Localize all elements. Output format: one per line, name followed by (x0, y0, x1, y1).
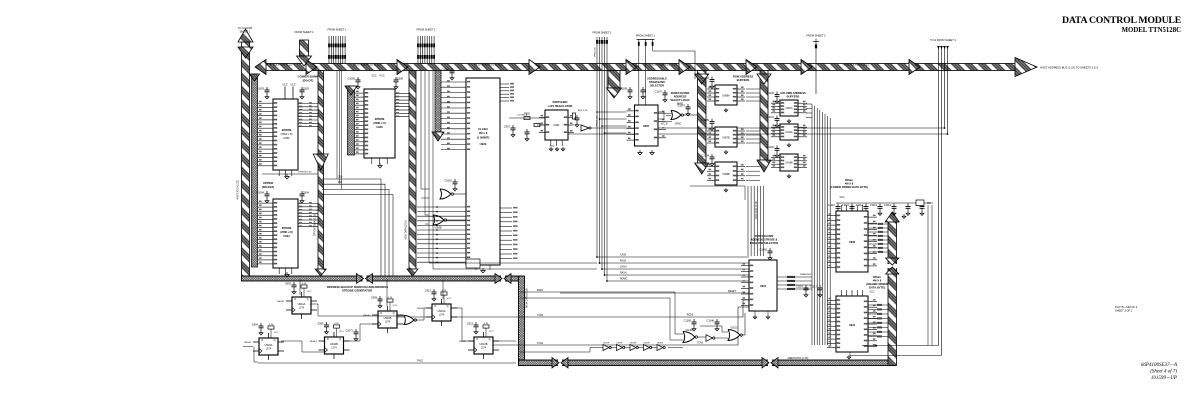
xor-gate U914C (404, 316, 414, 325)
capacitor C1103 (711, 77, 713, 80)
svg-text:C1065: C1065 (347, 77, 355, 81)
ground regulator (550, 147, 552, 149)
svg-text:HOST ADDRESS BUS (1:22) TO SHE: HOST ADDRESS BUS (1:22) TO SHEETS 3 & 6 (1040, 65, 1098, 69)
svg-text:C904: C904 (252, 323, 259, 327)
svg-text:C1100: C1100 (767, 91, 775, 95)
wire ff U910A out (281, 341, 325, 352)
svg-text:MODEL TTN5128C: MODEL TTN5128C (1122, 27, 1181, 34)
bus arrowhead flash drop (432, 132, 444, 141)
dram U909A lower byte (836, 211, 868, 272)
svg-text:D: D (262, 339, 264, 342)
svg-text:C907: C907 (504, 125, 511, 129)
svg-text:HOST ADD (1:22): HOST ADD (1:22) (237, 180, 240, 200)
svg-text:(Sheet 4 of 7): (Sheet 4 of 7) (1150, 370, 1177, 375)
wire bottom link U910A (254, 361, 258, 363)
wire ff U911A out (310, 304, 404, 316)
svg-text:GND: GND (550, 146, 555, 148)
sheet1 right wires arrows (937, 46, 940, 49)
bus arrowhead down row addr bottom (695, 163, 709, 174)
svg-text:D: D (327, 338, 329, 341)
svg-text:RSDC: RSDC (537, 290, 544, 292)
svg-text:U914F: U914F (630, 343, 637, 345)
svg-text:C1102: C1102 (767, 145, 775, 149)
svg-text:DRAM R/W: DRAM R/W (800, 273, 812, 276)
row buffer U908B (715, 162, 737, 185)
svg-text:U907B: U907B (722, 137, 730, 140)
capacitor C1066 (451, 68, 453, 71)
wire reset U910A (243, 346, 253, 348)
svg-text:D: D (435, 305, 437, 308)
svg-text:ADDRESS STROBE &: ADDRESS STROBE & (751, 238, 778, 242)
wire gate U914C out (415, 308, 432, 320)
capacitor C1109 (642, 87, 644, 90)
capacitor C1071 (355, 329, 357, 332)
svg-text:TCD0: TCD0 (537, 315, 544, 317)
inverter chain bottom (603, 345, 609, 351)
svg-text:U911B: U911B (384, 316, 392, 320)
capacitor C903 (301, 87, 303, 90)
svg-text:RCD0: RCD0 (687, 314, 694, 317)
svg-text:C1112: C1112 (856, 203, 864, 207)
capacitors dram decoupling row (837, 204, 839, 207)
svg-text:RESET: RESET (244, 342, 252, 344)
svg-text:(256K x 8): (256K x 8) (280, 230, 292, 234)
svg-text:DATA CONTROL MODULE: DATA CONTROL MODULE (1062, 15, 1182, 26)
flash U909 right pins bottom (500, 207, 512, 209)
wire gate U912A input B (520, 298, 683, 340)
connector cluster A wires (328, 36, 330, 64)
or-gate U906B (433, 215, 444, 225)
wire gate U912C input (700, 326, 728, 332)
svg-text:U907A: U907A (785, 107, 793, 110)
wires cluster A continue down (336, 71, 338, 180)
ground flash U909 (482, 268, 484, 271)
svg-text:4.7K: 4.7K (442, 290, 447, 292)
xor-gate U912A (683, 332, 695, 343)
svg-text:PLOTS—SIM OF 2: PLOTS—SIM OF 2 (1115, 305, 1138, 309)
svg-text:Q: Q (274, 339, 276, 342)
flip-flop U913B (475, 322, 477, 325)
svg-text:C1062: C1062 (444, 179, 452, 183)
svg-text:+5V SEC A: +5V SEC A (517, 114, 528, 117)
wire ff bus taps (299, 280, 301, 296)
svg-text:VCC: VCC (447, 298, 452, 300)
and-gate U906A (671, 111, 681, 120)
or-gate U906C (440, 189, 451, 199)
capacitor C1067 (687, 104, 689, 107)
svg-text:VCC: VCC (869, 291, 874, 294)
svg-text:LS74: LS74 (385, 321, 391, 323)
wires U904 outputs right (777, 276, 812, 278)
wires U905 right out (666, 112, 672, 114)
bus arrowhead host address (746, 60, 757, 75)
svg-text:ADDRESSABLE: ADDRESSABLE (647, 77, 667, 81)
wire ff U913B out (493, 340, 516, 342)
capacitor C1102 (776, 146, 778, 149)
dram U910 higher byte (836, 296, 868, 352)
bus mem data vertical (519, 276, 525, 366)
column buffer U914B (780, 154, 798, 171)
svg-text:(256K x 8): (256K x 8) (373, 121, 385, 125)
connector cluster C wires (638, 40, 640, 48)
bus arrowhead host address (626, 60, 637, 75)
svg-text:C903: C903 (285, 282, 292, 286)
svg-text:DRAM R/W SELECTOR: DRAM R/W SELECTOR (750, 241, 778, 245)
bus host address top horizontal (262, 64, 1016, 71)
bus to/from sheet1 left vertical (242, 42, 250, 281)
svg-text:U910A: U910A (265, 343, 273, 347)
capacitor C904 (301, 191, 303, 194)
ground U908B (725, 188, 727, 190)
wires control horizontal to selector (597, 256, 749, 258)
svg-text:(D8-D15): (D8-D15) (262, 185, 274, 189)
svg-text:101599—UP: 101599—UP (1151, 376, 1177, 381)
wires right loop bottom (876, 345, 939, 347)
sheet1 right wires vertical (938, 46, 940, 346)
ground eprom U904 (286, 272, 288, 275)
svg-text:DATA BYTE): DATA BYTE) (869, 286, 885, 290)
svg-text:U913F: U913F (616, 343, 623, 345)
wires mem add vertical (747, 186, 749, 256)
flash U909 left pins bottom (417, 206, 466, 208)
svg-text:SELECTOR: SELECTOR (650, 84, 664, 88)
bus arrowhead host address (909, 60, 920, 75)
flip-flop U911B (379, 296, 381, 299)
capacitor C1104 (711, 154, 713, 157)
capacitor C1107 (664, 90, 666, 93)
svg-text:CS1: CS1 (338, 182, 343, 184)
flash bottom pins (475, 265, 477, 270)
flip-flop U910B (326, 322, 328, 325)
capacitor C1100 (776, 92, 778, 95)
capacitor C1063 (266, 87, 268, 90)
bus eprom left bundle band (252, 74, 258, 267)
svg-text:U904: U904 (760, 284, 767, 288)
wires U907B to colbus (746, 130, 760, 132)
wire TH02 bottom (258, 362, 516, 364)
svg-text:EPROM: EPROM (375, 117, 385, 121)
capacitor C1062 (454, 179, 456, 182)
svg-text:EPROM DATA (0:15): EPROM DATA (0:15) (314, 214, 317, 236)
svg-text:FROM SHEET 1: FROM SHEET 1 (592, 31, 612, 35)
svg-text:VCC: VCC (274, 332, 279, 334)
eprom U902 lower (273, 99, 298, 170)
svg-text:CASH: CASH (620, 266, 627, 269)
svg-text:4M X 8: 4M X 8 (845, 182, 854, 186)
svg-text:C1071: C1071 (345, 329, 353, 333)
wire RCD0 (396, 300, 749, 317)
svg-text:LS74: LS74 (439, 314, 445, 316)
wire gate U906C out (453, 193, 467, 195)
svg-text:C1111: C1111 (842, 203, 850, 207)
svg-text:CS0: CS0 (338, 177, 343, 179)
svg-text:R(4) 4.3K: R(4) 4.3K (578, 110, 588, 112)
svg-text:C1116: C1116 (796, 285, 804, 289)
bus arrow from sheet 1 drop (300, 40, 309, 56)
svg-text:RAS0: RAS0 (620, 260, 627, 263)
wires dram1 right to bus (868, 223, 888, 225)
bus eprom data vertical (318, 71, 324, 270)
capacitor C1101 (776, 116, 778, 119)
svg-text:VRSC: VRSC (675, 124, 682, 126)
svg-text:DRam: DRam (873, 275, 881, 279)
svg-text:C905: C905 (397, 77, 404, 81)
wire TCAS (492, 307, 749, 345)
svg-text:(256K x 8): (256K x 8) (281, 132, 293, 136)
bus break refresh bus 1 (363, 275, 367, 282)
svg-text:VCC: VCC (371, 75, 376, 78)
column buffer U914A (780, 124, 798, 140)
row buffer U907B (715, 127, 737, 147)
svg-text:Q: Q (447, 305, 449, 308)
connector cluster E wire (815, 39, 817, 95)
svg-text:EPROM: EPROM (282, 128, 292, 132)
bus stub control signals (608, 71, 620, 89)
svg-text:ADDRESS: ADDRESS (674, 95, 687, 99)
svg-text:C905: C905 (317, 322, 324, 326)
connector Y1 below flash (466, 259, 480, 268)
svg-text:MEM DATA (0:15): MEM DATA (0:15) (405, 220, 408, 239)
svg-text:VCC: VCC (282, 84, 287, 87)
svg-text:U913A: U913A (438, 309, 446, 313)
bus arrowhead eprom data mid (313, 154, 328, 170)
capacitor C1117 (819, 285, 821, 288)
svg-text:VCC B: VCC B (660, 124, 667, 126)
svg-text:MEM DATA (0:15): MEM DATA (0:15) (788, 356, 809, 360)
svg-text:U905: U905 (643, 124, 650, 128)
capacitor C1060 (769, 248, 771, 251)
svg-text:RASH: RASH (620, 272, 627, 275)
inverter U912B (706, 335, 713, 342)
svg-text:C912: C912 (425, 289, 432, 293)
svg-text:HOST ADDRESS (1:22): HOST ADDRESS (1:22) (354, 64, 381, 67)
svg-text:HOST ADDRESS (1:22): HOST ADDRESS (1:22) (843, 64, 870, 67)
svg-text:D: D (381, 312, 383, 315)
flip-flop U911A (293, 282, 295, 285)
svg-text:FROM SHEET 1: FROM SHEET 1 (806, 34, 826, 38)
wire gate U912A input A (520, 292, 683, 334)
bus arrowhead down col addr top (757, 74, 771, 84)
svg-text:VCC: VCC (489, 331, 494, 333)
svg-text:HOST ADDRESS (1:22): HOST ADDRESS (1:22) (266, 64, 293, 67)
svg-text:C1107: C1107 (655, 90, 663, 94)
ground U908A (725, 108, 727, 110)
capacitor C1105 (711, 119, 713, 122)
flash U909 right pins top (500, 83, 509, 85)
bus break refresh bus 2 (501, 275, 505, 282)
svg-text:ROW/COLUMN: ROW/COLUMN (755, 234, 774, 238)
svg-text:U909: U909 (480, 142, 487, 146)
svg-text:BUFFERS: BUFFERS (737, 78, 750, 82)
wire ff U913A out (453, 308, 474, 341)
svg-text:ROW/COLUMN: ROW/COLUMN (671, 91, 690, 95)
capacitor C908 (526, 129, 528, 132)
bus arrowhead down col addr bottom (757, 160, 771, 172)
svg-text:SELECT LOGIC: SELECT LOGIC (670, 98, 689, 102)
ground U907B (725, 150, 727, 152)
svg-text:RESET: RESET (277, 301, 285, 303)
svg-text:Q: Q (393, 312, 395, 315)
ground U904 (754, 315, 756, 317)
svg-text:VCC: VCC (339, 331, 344, 333)
svg-text:C1101: C1101 (767, 115, 775, 119)
flip-flop U910A (260, 323, 262, 326)
svg-text:4.7K: 4.7K (388, 297, 393, 299)
bus arrowhead host address (306, 60, 317, 75)
flash U909 left pins top (441, 81, 466, 83)
wires eprom U903 data to bus (395, 93, 409, 95)
svg-text:SHEET 1: SHEET 1 (240, 30, 251, 34)
svg-text:C909: C909 (371, 296, 378, 300)
capacitor C1106 (693, 319, 695, 322)
svg-text:C913: C913 (467, 322, 474, 326)
svg-text:VCC: VCC (839, 196, 844, 199)
ground U905 (639, 150, 641, 153)
wire to inverter chain (520, 348, 597, 353)
svg-text:EPROM CS0: EPROM CS0 (299, 172, 313, 174)
wires col buffer to bundle (806, 103, 812, 105)
wire ff U911B out (397, 314, 404, 316)
eprom U904 upper (273, 199, 298, 268)
svg-text:C1146: C1146 (707, 319, 715, 323)
bus arrowhead U903 bundle (345, 86, 357, 95)
svg-text:(LOWER ORDER DATA BYTE): (LOWER ORDER DATA BYTE) (830, 185, 868, 189)
svg-text:LS74: LS74 (299, 307, 305, 309)
svg-text:U915F: U915F (643, 343, 650, 345)
svg-text:Q: Q (307, 298, 309, 301)
svg-text:U908: U908 (849, 240, 856, 244)
capacitor C905 (395, 77, 397, 80)
bus arrow left end (255, 60, 266, 75)
svg-text:U908A: U908A (722, 95, 730, 98)
svg-text:66P4100SE37—A: 66P4100SE37—A (1141, 363, 1178, 368)
capacitor C1064 (266, 191, 268, 194)
bus corner left bottom (242, 276, 519, 281)
wire gates link (697, 336, 706, 338)
wire vcc eprom1 (284, 87, 286, 100)
bus break dram data (887, 264, 898, 268)
svg-text:VCC: VCC (393, 305, 398, 307)
svg-text:VCC: VCC (290, 84, 295, 87)
bus arrowhead down eprom data (315, 269, 326, 276)
svg-text:FROM SHEET 1: FROM SHEET 1 (327, 28, 347, 32)
bus arrowhead host address (397, 60, 408, 75)
regulator U901 (545, 110, 568, 140)
resistor pack R903 (916, 200, 924, 206)
connector cluster C0 wires (596, 37, 598, 44)
strobe selector U904 (749, 260, 777, 311)
bus row address vertical (698, 71, 707, 164)
wire cluster C right bend (653, 47, 695, 79)
wires U905 left from quad (607, 111, 627, 113)
svg-text:U903: U903 (376, 125, 383, 129)
wires eprom U902 data to bus (298, 103, 318, 105)
svg-text:U911A: U911A (298, 302, 306, 306)
svg-text:C1103: C1103 (702, 76, 710, 80)
bus arrowhead bundle top (250, 74, 260, 81)
wire det (568, 133, 948, 135)
svg-text:4.7K: 4.7K (269, 324, 274, 326)
wire prog enable (591, 127, 945, 129)
svg-text:U914B: U914B (785, 162, 793, 165)
svg-text:VCC: VCC (307, 291, 312, 293)
wires U908A to colbus (746, 88, 760, 90)
svg-text:4.7K: 4.7K (334, 323, 339, 325)
flash U909 junction dots (436, 206, 438, 208)
svg-text:U912F: U912F (603, 343, 610, 345)
flash U909 (466, 78, 500, 265)
svg-text:(HIGHER ORDER: (HIGHER ORDER (866, 282, 888, 286)
bus arrowhead down control (607, 88, 622, 98)
bus break bottom 1 (768, 359, 772, 367)
flip-flop U913A (433, 289, 435, 292)
svg-text:ROW ADDRESS: ROW ADDRESS (733, 75, 754, 79)
wires U908B to colbus (746, 166, 760, 168)
svg-text:RESET: RESET (310, 341, 318, 343)
svg-text:U901: U901 (553, 123, 560, 127)
capacitor C907 (512, 125, 514, 128)
svg-text:U908B: U908B (722, 173, 730, 176)
wires eprom U904 data to bus (298, 203, 318, 205)
bus flash address drop band (435, 71, 441, 133)
svg-text:U902: U902 (283, 136, 290, 140)
svg-text:(1 5MBIT): (1 5MBIT) (477, 135, 490, 139)
svg-text:U904: U904 (283, 234, 290, 238)
wire eprom cs0 (262, 173, 318, 175)
svg-text:HOST ADDRESS (1:22): HOST ADDRESS (1:22) (475, 64, 502, 67)
svg-text:4M X 8: 4M X 8 (873, 279, 882, 283)
svg-text:FROM SHEET 1: FROM SHEET 1 (416, 28, 436, 32)
svg-text:D: D (295, 298, 297, 301)
svg-text:TCAS: TCAS (537, 342, 544, 345)
svg-text:Q: Q (339, 338, 341, 341)
svg-text:4.7K: 4.7K (484, 323, 489, 325)
svg-text:U910B: U910B (330, 342, 338, 346)
svg-text:STROBE GENERATOR: STROBE GENERATOR (342, 289, 372, 293)
xor-gate U912C (728, 330, 740, 341)
svg-text:EPROM: EPROM (282, 226, 292, 230)
svg-text:(D0-D7): (D0-D7) (303, 79, 314, 83)
svg-text:U916F: U916F (657, 343, 664, 345)
svg-text:COLUMN ADDRESS: COLUMN ADDRESS (780, 91, 806, 95)
svg-text:C904: C904 (303, 191, 310, 195)
svg-text:TCAS: TCAS (697, 342, 704, 345)
wires dram2 right to bus (868, 304, 888, 306)
svg-text:DRam: DRam (845, 178, 853, 182)
ground eprom U902 (286, 174, 288, 177)
wires control vertical quad (596, 44, 598, 257)
wire decap rail (836, 202, 930, 204)
ground dram2 (848, 355, 850, 357)
svg-text:LS74: LS74 (331, 347, 337, 349)
capacitor C1146 (716, 319, 718, 322)
connector cluster B wires (417, 36, 419, 64)
svg-text:LS74: LS74 (266, 348, 272, 350)
svg-text:C903: C903 (303, 87, 310, 91)
addressable latch U905 (635, 105, 659, 146)
bus mem data branch vertical (409, 71, 416, 270)
svg-text:U906B: U906B (434, 228, 441, 230)
bus break bottom 0 (558, 359, 562, 367)
svg-text:C1067: C1067 (677, 104, 685, 108)
capacitor C906b (576, 115, 578, 118)
svg-text:Q: Q (489, 338, 491, 341)
svg-text:C1110: C1110 (828, 203, 836, 207)
svg-text:U914A: U914A (785, 131, 793, 134)
svg-text:R903: R903 (927, 203, 933, 205)
wires cluster B continue down (420, 71, 422, 190)
wires cluster C down to U905 (638, 47, 640, 105)
